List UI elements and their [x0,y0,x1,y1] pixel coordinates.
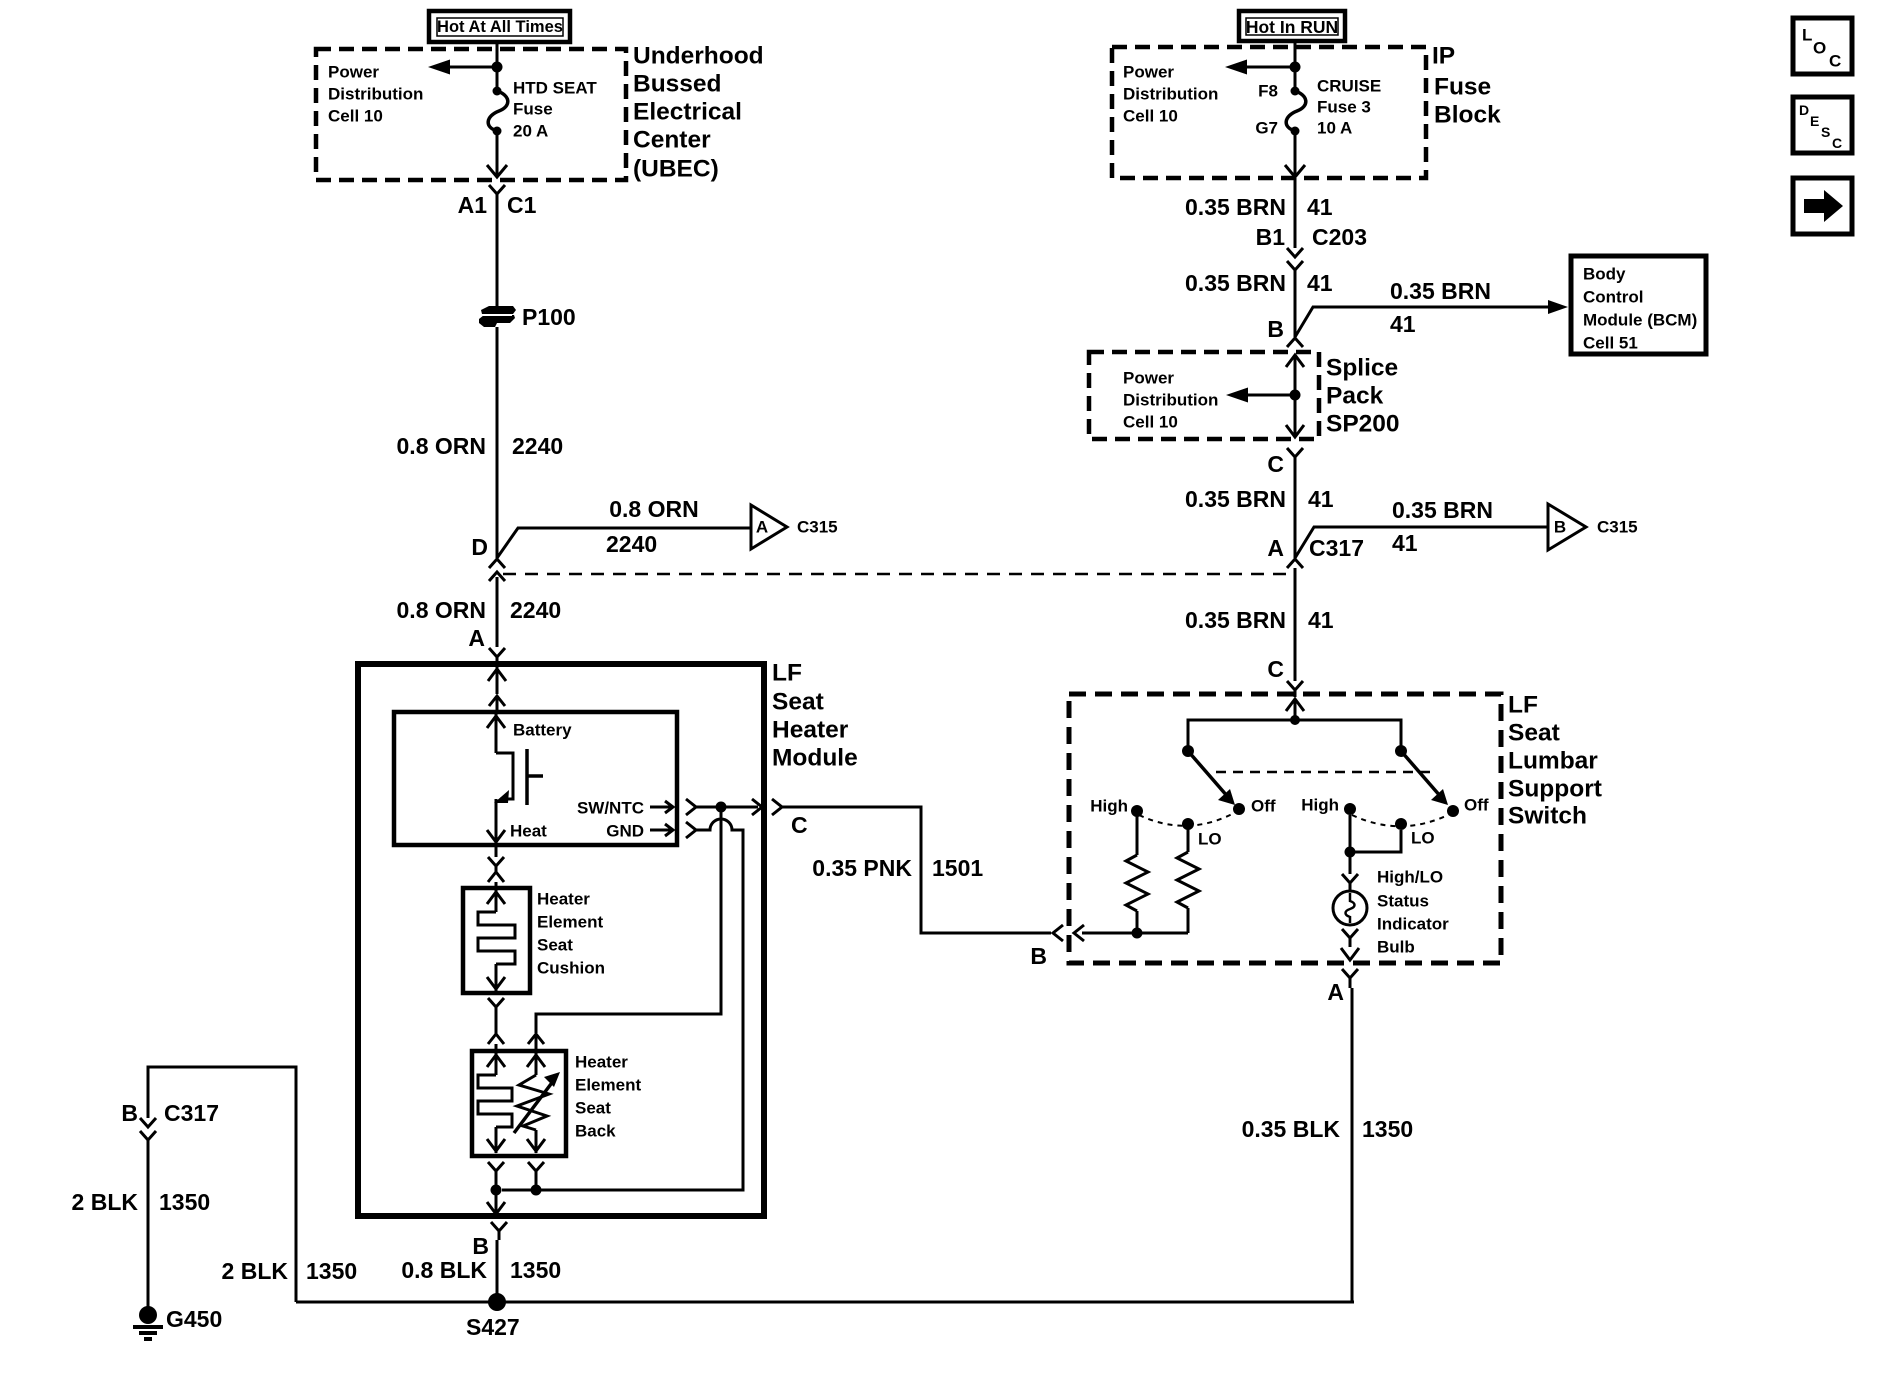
svg-text:0.35 BRN: 0.35 BRN [1390,278,1491,304]
svg-text:Body: Body [1583,265,1626,284]
svg-text:A1: A1 [458,192,488,218]
svg-text:41: 41 [1392,530,1418,556]
wire label 0.35 PNK 1501 [812,855,983,881]
connector chevron outside module (pin C) [772,799,782,815]
svg-text:Heater: Heater [772,717,849,744]
switch gang dashed link [1216,771,1431,774]
svg-text:Bulb: Bulb [1377,938,1415,957]
label Heater Element Seat Back [575,1053,641,1141]
svg-text:41: 41 [1390,311,1416,337]
svg-text:10 A: 10 A [1317,119,1352,138]
wire fuse to UBEC exit with arrow [487,131,507,177]
svg-text:0.35 BRN: 0.35 BRN [1185,270,1286,296]
svg-text:F8: F8 [1258,82,1278,101]
svg-text:1350: 1350 [1362,1116,1413,1142]
connector chevron at module edge (SW/NTC out) [752,799,762,815]
wire splice pack exit arrow down [1286,425,1304,437]
svg-text:Power: Power [328,63,379,82]
svg-text:LF: LF [772,660,802,687]
svg-text:Seat: Seat [537,936,573,955]
svg-text:Control: Control [1583,288,1643,307]
wire pin A down to S427 bus [1351,988,1354,1302]
wire heat to cushion element [495,845,498,857]
svg-text:SW/NTC: SW/NTC [577,799,644,818]
node resistor bus [1132,928,1143,939]
svg-text:Distribution: Distribution [1123,85,1218,104]
svg-text:Heater: Heater [575,1053,628,1072]
svg-text:Center: Center [633,127,711,154]
svg-text:2 BLK: 2 BLK [222,1258,289,1284]
svg-text:41: 41 [1308,486,1334,512]
seat back left input arrow [487,1053,505,1075]
resistor seat back (meander) [478,1075,512,1127]
svg-text:C315: C315 [797,518,838,537]
svg-text:LO: LO [1198,830,1222,849]
svg-text:Module: Module [772,745,858,772]
seat back left output arrow [487,1127,505,1153]
wire label 0.8 BLK 1350 [401,1257,561,1283]
svg-text:C317: C317 [164,1100,219,1126]
svg-text:2240: 2240 [510,597,561,623]
wire arrow to Power Distribution (splice) [1244,394,1295,397]
splice pack dashed box [1089,352,1319,439]
wire label 2 BLK 1350 (middle) [222,1258,358,1284]
pin labels F8 G7 [1255,82,1278,138]
wire module ground exit arrow [487,1190,505,1214]
connector B below module (female) [491,1222,507,1240]
svg-text:C: C [1267,656,1284,682]
wire from Hot In RUN into fuse block [1294,41,1297,90]
seat back right input arrow [527,1053,545,1075]
wire label 0.35 BRN 41 (BCM branch) [1390,278,1491,337]
svg-text:IP: IP [1432,43,1455,70]
svg-text:B: B [1267,316,1284,342]
svg-text:Cell 10: Cell 10 [1123,107,1178,126]
fuse value label [1317,77,1381,138]
node bulb junction [1345,847,1356,858]
svg-text:CRUISE: CRUISE [1317,77,1381,96]
svg-text:Splice: Splice [1326,355,1398,382]
svg-text:Electrical: Electrical [633,99,742,126]
icon LOC box [1793,18,1852,74]
contact High (switch 2) [1344,803,1356,815]
svg-text:Power: Power [1123,63,1174,82]
UBEC name label [633,43,764,183]
svg-text:0.8 BLK: 0.8 BLK [401,1257,487,1283]
svg-text:0.35 BRN: 0.35 BRN [1392,497,1493,523]
connector SW/NTC (chevron) [686,799,696,815]
svg-text:G450: G450 [166,1306,222,1332]
wire to C203 [1294,178,1297,248]
label box "Hot At All Times" [429,11,570,42]
node junction dot at fuse feed [492,62,503,73]
wire module entry arrow up [488,667,506,694]
svg-text:(UBEC): (UBEC) [633,156,719,183]
contact High (switch 1) [1131,805,1143,817]
svg-text:B: B [121,1100,138,1126]
connector bulb in (female) [1342,874,1358,891]
svg-text:Cell 51: Cell 51 [1583,334,1638,353]
wire junction to bulb [1349,852,1352,874]
svg-text:1350: 1350 [306,1258,357,1284]
battery switch box (solid state relay) [394,712,677,845]
node splice junction [1290,390,1301,401]
wire GND with hop over SW/NTC drop [502,819,743,1190]
svg-text:20 A: 20 A [513,122,548,141]
svg-text:Seat: Seat [575,1099,611,1118]
svg-text:0.35 BRN: 0.35 BRN [1185,486,1286,512]
svg-text:Distribution: Distribution [328,85,423,104]
connector C (female) [1287,448,1303,558]
svg-text:0.8 ORN: 0.8 ORN [397,597,486,623]
wire from Hot At All Times into UBEC [496,42,499,90]
svg-text:Heat: Heat [510,822,547,841]
connector A1/C1 (female) [489,185,505,204]
svg-text:A: A [468,625,485,651]
svg-text:Off: Off [1464,796,1489,815]
svg-text:Hot At All Times: Hot At All Times [437,18,563,36]
svg-text:G7: G7 [1255,119,1278,138]
svg-text:C: C [1832,135,1842,151]
transistor switch contact [494,749,543,805]
wire label 0.8 ORN 2240 (upper) [397,433,564,459]
wire ground bus S427 [296,1301,1354,1304]
svg-text:Indicator: Indicator [1377,915,1449,934]
pin GND label and arrow [606,822,673,841]
wire SW/NTC to node [696,806,758,809]
node ground bus left [491,1185,502,1196]
svg-text:Fuse: Fuse [1434,74,1491,101]
connector pin A (female) [1342,969,1358,988]
SECTION-TOPRIGHT [1030,692,1602,1303]
connector seat back right out (female) [528,1162,544,1190]
icon DESC box [1793,97,1852,153]
svg-text:C: C [1267,451,1284,477]
wire D to module A [496,577,499,647]
svg-text:Element: Element [537,913,603,932]
LF Seat Heater Module name [772,660,858,772]
LF Seat Heater Module box [358,664,764,1216]
pin SW/NTC label and arrow [577,799,673,818]
IP Fuse Block name [1432,43,1501,129]
svg-text:C: C [791,812,808,838]
node ground bus right [531,1185,542,1196]
IP fuse block dashed box [1112,47,1426,178]
connector C lumbar (female) [1287,681,1303,697]
wire label 0.35 BRN 41 (C315 branch) [1392,497,1493,556]
switch 1 lever arm [1188,751,1235,805]
svg-text:D: D [471,534,488,560]
resistor High (zigzag) [1126,815,1148,933]
label High/LO Status Indicator Bulb [1377,868,1449,957]
svg-text:C315: C315 [1597,518,1638,537]
fuse value label [513,79,597,141]
svg-text:Distribution: Distribution [1123,391,1218,410]
connector cushion out (female) [488,998,504,1034]
svg-text:High: High [1301,796,1339,815]
contact LO (switch 1) [1182,818,1194,830]
svg-text:B1: B1 [1256,224,1286,250]
wire module B to S427 [496,1240,499,1302]
LF Seat Lumbar Support Switch name [1508,692,1602,830]
node junction dot [1290,62,1301,73]
UBEC dashed box [316,49,626,180]
svg-text:1350: 1350 [159,1189,210,1215]
svg-text:High/LO: High/LO [1377,868,1443,887]
SECTION-TOPLEFT [358,660,1051,1217]
wire arrow to Power Distribution (left) [446,66,497,69]
wire pin C toward lumbar switch [782,807,1051,933]
connector C203 (double chevron down) [1287,248,1303,337]
svg-text:C: C [1829,52,1841,71]
contact LO (switch 2) [1395,818,1407,830]
svg-text:High: High [1090,797,1128,816]
wire label 0.35 BRN 41 (first) [1185,194,1333,220]
variable resistor seat back (zigzag with arrow) [514,1072,560,1133]
SECTION-MODULE [72,1067,1354,1340]
heater element seat back box [472,1051,566,1156]
svg-text:Seat: Seat [772,689,824,716]
node D branch wire to C315 [497,528,751,558]
switch 2 lever arm [1401,751,1448,805]
wire label 0.35 BRN 41 (second) [1185,270,1333,296]
svg-text:HTD SEAT: HTD SEAT [513,79,597,98]
svg-text:GND: GND [606,822,644,841]
svg-text:A: A [1327,979,1344,1005]
LF Seat Lumbar Support Switch dashed box [1069,694,1501,963]
node A branch wire to C315 [1295,527,1548,558]
resistor LO (zigzag) [1177,828,1199,933]
cushion element output arrow [487,964,505,991]
svg-text:B: B [1030,943,1047,969]
svg-text:Support: Support [1508,776,1602,803]
connector pin B chevrons [1053,925,1084,941]
text Power Distribution Cell 10 (splice pack) [1123,369,1218,432]
text Power Distribution Cell 10 (UBEC) [328,63,423,126]
svg-text:L: L [1802,26,1812,45]
svg-text:LO: LO [1411,829,1435,848]
Body Control Module (BCM) box [1571,256,1706,354]
svg-text:Cell 10: Cell 10 [328,107,383,126]
connector A module (female) [489,648,505,664]
svg-text:Seat: Seat [1508,720,1560,747]
svg-text:Back: Back [575,1122,616,1141]
icon next-arrow box [1793,178,1852,234]
splice S427 [488,1293,506,1311]
svg-text:C1: C1 [507,192,537,218]
svg-text:Status: Status [1377,892,1429,911]
svg-text:Off: Off [1251,797,1276,816]
svg-text:0.35 PNK: 0.35 PNK [812,855,912,881]
connector into battery unit (male) [489,696,505,712]
text Power Distribution Cell 10 (IP) [1123,63,1218,126]
svg-text:Fuse: Fuse [513,100,553,119]
heater element seat cushion box [463,888,530,993]
indicator bulb [1333,891,1367,925]
svg-text:Fuse 3: Fuse 3 [1317,98,1371,117]
pin labels B1 C203 [1256,224,1367,250]
wire splice pack entry arrow up [1286,355,1304,437]
wire label 0.35 BRN 41 (third) [1185,486,1334,512]
svg-text:SP200: SP200 [1326,411,1400,438]
svg-text:Power: Power [1123,369,1174,388]
connector seat back left out (female) [488,1162,504,1190]
svg-text:A: A [1267,535,1284,561]
svg-text:Block: Block [1434,102,1501,129]
switch 1 travel dashed arc [1139,812,1236,826]
svg-text:Underhood: Underhood [633,43,764,70]
svg-text:A: A [756,518,768,537]
cushion element input arrow [487,890,505,912]
wire label 0.8 ORN 2240 (branch) [606,496,699,557]
svg-text:S427: S427 [466,1314,520,1340]
svg-text:Heater: Heater [537,890,590,909]
BCM text [1583,265,1697,353]
svg-text:P100: P100 [522,304,576,330]
seat back right output arrow [527,1130,545,1153]
node B branch wire to BCM [1295,300,1568,337]
svg-text:Battery: Battery [513,721,572,740]
contact Off (switch 1) [1233,803,1245,815]
fuse CRUISE Fuse 3 10 A [1286,87,1306,136]
switch 2 pivot [1395,745,1407,757]
svg-text:Switch: Switch [1508,803,1587,830]
svg-text:Cell 10: Cell 10 [1123,413,1178,432]
pin labels A C317 [1267,535,1364,561]
svg-text:Bussed: Bussed [633,71,722,98]
svg-text:2 BLK: 2 BLK [72,1189,139,1215]
svg-text:41: 41 [1308,607,1334,633]
connector cushion in (male) [488,872,504,888]
wire S427 to C317 (up and over) [148,1067,296,1302]
svg-text:2240: 2240 [512,433,563,459]
wire label 0.35 BLK 1350 [1242,1116,1414,1142]
resistor cushion (meander) [478,912,515,964]
svg-text:41: 41 [1307,270,1333,296]
svg-text:1350: 1350 [510,1257,561,1283]
label box "Hot In RUN" [1239,11,1345,41]
heat output arrow [487,799,505,843]
switch 2 travel dashed arc [1352,814,1450,826]
label Heater Element Seat Cushion [537,890,605,978]
svg-text:0.35 BLK: 0.35 BLK [1242,1116,1341,1142]
wire label 0.35 BRN 41 (fourth) [1185,607,1334,633]
wire label 0.8 ORN 2240 (lower) [397,597,562,623]
fuse HTD SEAT 20 A [488,87,508,136]
ground G450 [133,1306,163,1339]
svg-text:0.35 BRN: 0.35 BRN [1185,607,1286,633]
wire LO to bulb junction [1350,830,1401,852]
dashed link wire D to C317 [503,573,1295,576]
wire High to bulb junction [1349,815,1352,852]
wire bulb to pin A arrow down [1341,948,1359,960]
svg-text:Cushion: Cushion [537,959,605,978]
connector GND (chevron) [686,822,696,838]
connector triangle A C315 [751,505,838,549]
wire P100 to node D [496,327,499,558]
connector seat back right input (male) [528,1034,544,1051]
connector into splice pack (male chevron) [1287,338,1303,347]
svg-text:Module (BCM): Module (BCM) [1583,311,1697,330]
svg-text:0.35 BRN: 0.35 BRN [1185,194,1286,220]
contact Off (switch 2) [1447,805,1459,817]
svg-text:S: S [1821,124,1830,140]
wire arrow to Power Distribution (left) [1243,66,1295,69]
connector heat out (female) [488,857,504,872]
svg-text:E: E [1810,113,1819,129]
svg-text:Element: Element [575,1076,641,1095]
svg-text:B: B [1554,518,1566,537]
wire resistor bus to pin B [1082,932,1188,935]
svg-text:C203: C203 [1312,224,1367,250]
svg-text:41: 41 [1307,194,1333,220]
node bus junction [1290,715,1300,725]
Splice Pack SP200 name [1326,355,1400,438]
svg-text:C317: C317 [1309,535,1364,561]
connector A C317 (male chevron) [1287,559,1303,681]
svg-text:LF: LF [1508,692,1538,719]
connector B C317 (double chevron down) [140,1118,156,1312]
SECTION-LUMBAR [1793,18,1852,234]
svg-text:O: O [1813,39,1826,58]
svg-text:D: D [1799,102,1809,118]
svg-text:1501: 1501 [932,855,983,881]
connector bulb out (female) [1342,929,1358,947]
SECTION-BOTTOMLEFT [1089,11,1706,697]
wire switch feed bus [1188,720,1401,751]
svg-text:0.8 ORN: 0.8 ORN [397,433,486,459]
wire lumbar entry arrow up [1286,699,1304,720]
wire SW/NTC drop to seat back element [536,807,721,1033]
svg-text:2240: 2240 [606,531,657,557]
svg-text:Pack: Pack [1326,383,1384,410]
node SW/NTC junction [716,802,727,813]
connector seat back left input (male) [488,1034,504,1051]
switch 1 pivot [1182,745,1194,757]
pin labels A1 C1 [458,192,537,218]
battery input arrow [487,714,505,753]
svg-text:B: B [472,1233,489,1259]
grommet P100 [479,306,516,327]
connector D (male chevrons) [489,559,505,581]
wire C1 to P100 [496,204,499,308]
connector triangle B C315 [1548,504,1638,550]
wire fuse to block exit with arrow [1285,131,1305,177]
svg-text:Hot In RUN: Hot In RUN [1246,17,1338,37]
svg-text:Lumbar: Lumbar [1508,748,1598,775]
svg-text:0.8 ORN: 0.8 ORN [609,496,698,522]
wire label 2 BLK 1350 (left) [72,1189,211,1215]
